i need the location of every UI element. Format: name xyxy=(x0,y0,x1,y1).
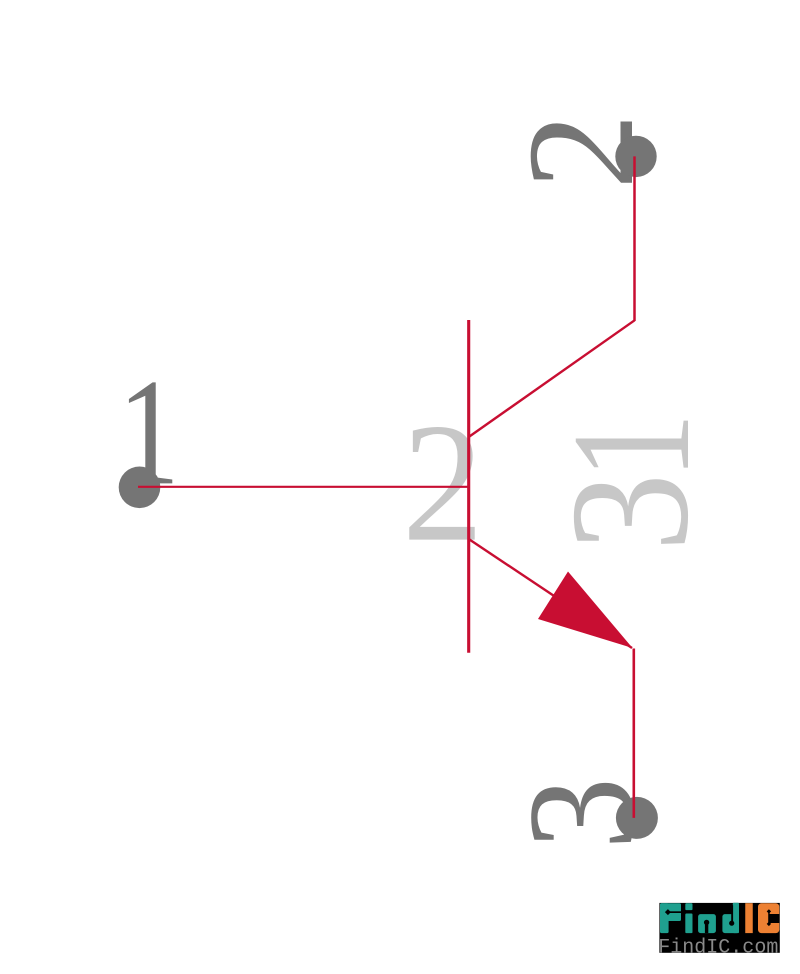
emitter arrow xyxy=(538,572,633,649)
wire collector diagonal xyxy=(469,320,635,437)
pin 1 dot xyxy=(119,467,161,509)
wire emitter diagonal xyxy=(469,539,632,648)
base bar xyxy=(467,320,470,653)
logo letter n xyxy=(698,914,716,933)
svg-text:1: 1 xyxy=(538,413,726,480)
pin 3 dot xyxy=(616,797,658,839)
logo letter i xyxy=(685,903,692,933)
wire emitter vertical xyxy=(632,649,635,818)
designator 2 (light gray) xyxy=(402,390,484,578)
logo letter C xyxy=(758,903,779,933)
svg-text:2: 2 xyxy=(402,390,484,578)
logo letter I xyxy=(745,903,753,933)
svg-text:3: 3 xyxy=(536,473,724,551)
svg-text:FindIC.com: FindIC.com xyxy=(658,936,778,959)
logo block xyxy=(658,903,780,960)
logo letter F xyxy=(660,903,681,933)
wire base horizontal xyxy=(138,486,470,488)
wire collector vertical xyxy=(633,156,636,321)
pin 2 dot xyxy=(615,136,656,177)
pin number 1 xyxy=(118,348,180,517)
logo letter d xyxy=(722,903,739,933)
value label 31 (light gray, rotated) xyxy=(536,413,726,552)
